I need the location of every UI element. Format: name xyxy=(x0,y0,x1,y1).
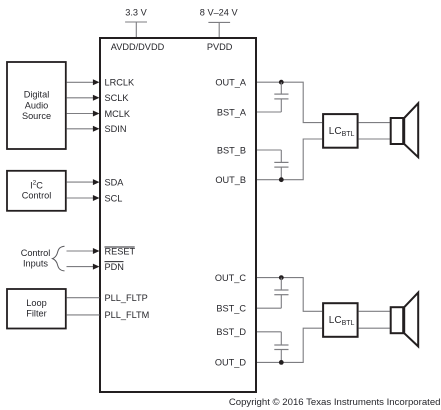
speaker SPK2 xyxy=(391,293,419,347)
wire OUT_A xyxy=(257,82,322,122)
pin label PDN (active low) xyxy=(105,262,124,272)
svg-text:OUT_C: OUT_C xyxy=(215,273,247,283)
svg-text:BST_B: BST_B xyxy=(217,145,246,155)
svg-text:OUT_B: OUT_B xyxy=(215,175,246,185)
svg-text:MCLK: MCLK xyxy=(105,109,131,119)
svg-text:3.3 V: 3.3 V xyxy=(125,8,147,18)
svg-text:SDA: SDA xyxy=(105,177,125,187)
svg-text:Inputs: Inputs xyxy=(23,259,48,269)
wire PLL_FLTP xyxy=(67,297,100,299)
svg-text:Source: Source xyxy=(22,111,51,121)
svg-text:SCLK: SCLK xyxy=(105,93,130,103)
svg-text:PLL_FLTP: PLL_FLTP xyxy=(105,293,148,303)
wire LC2 out top xyxy=(359,310,390,312)
wire OUT_D xyxy=(257,328,322,362)
Loop Filter box xyxy=(7,289,66,329)
wire LC1 out top xyxy=(359,122,390,124)
svg-text:PLL_FLTM: PLL_FLTM xyxy=(105,310,150,320)
bootstrap capacitor C_D xyxy=(274,332,288,363)
supply 3.3 V connector xyxy=(125,22,147,37)
junction dot OUT_D xyxy=(279,360,284,365)
wire LRCLK xyxy=(67,79,100,85)
wire SDIN xyxy=(67,126,100,132)
svg-text:Control: Control xyxy=(21,248,51,258)
svg-text:Loop: Loop xyxy=(26,298,46,308)
wire MCLK xyxy=(67,111,100,117)
wire LC2 out bottom xyxy=(359,327,390,329)
svg-text:SDIN: SDIN xyxy=(105,124,127,134)
LC_BTL filter box 1 xyxy=(323,114,358,148)
bootstrap capacitor C_B xyxy=(274,150,288,180)
svg-text:BST_A: BST_A xyxy=(217,107,247,117)
wire PDN xyxy=(67,264,100,270)
wire SCLK xyxy=(67,95,100,101)
svg-text:PVDD: PVDD xyxy=(207,42,233,52)
wire BST_C xyxy=(257,307,281,309)
svg-text:SCL: SCL xyxy=(105,193,123,203)
Digital Audio Source box xyxy=(7,62,66,149)
junction dot OUT_B xyxy=(279,177,284,182)
wire SDA xyxy=(67,179,100,185)
wire OUT_B xyxy=(257,139,322,180)
wire BST_A xyxy=(257,111,281,113)
supply 8V-24V connector xyxy=(208,22,230,37)
svg-text:LRCLK: LRCLK xyxy=(105,78,135,88)
svg-text:Copyright © 2016 Texas Instrum: Copyright © 2016 Texas Instruments Incor… xyxy=(229,397,441,408)
I2C Control box xyxy=(7,171,66,211)
svg-text:Digital: Digital xyxy=(24,90,50,100)
wire OUT_C xyxy=(257,278,322,312)
wire LC1 out bottom xyxy=(359,138,390,140)
LC_BTL filter box 2 xyxy=(323,303,358,337)
svg-text:Filter: Filter xyxy=(26,309,46,319)
bootstrap capacitor C_C xyxy=(274,278,288,309)
pin label RESET (active low) xyxy=(105,247,136,257)
bootstrap capacitor C_A xyxy=(274,82,288,112)
svg-text:I2C: I2C xyxy=(30,180,43,191)
wire BST_D xyxy=(257,331,281,333)
wire PLL_FLTM xyxy=(67,314,100,316)
svg-text:PDN: PDN xyxy=(105,262,124,272)
speaker SPK1 xyxy=(391,103,419,157)
wire BST_B xyxy=(257,149,281,151)
junction dot OUT_A xyxy=(279,80,284,85)
Control Inputs label xyxy=(21,248,51,269)
svg-text:BST_C: BST_C xyxy=(216,304,246,314)
junction dot OUT_C xyxy=(279,275,284,280)
svg-text:Control: Control xyxy=(22,190,52,200)
svg-text:AVDD/DVDD: AVDD/DVDD xyxy=(111,42,165,52)
svg-text:8 V–24 V: 8 V–24 V xyxy=(200,8,239,18)
svg-text:OUT_A: OUT_A xyxy=(215,78,247,88)
brace for control inputs xyxy=(53,246,65,271)
IC block U1 xyxy=(100,38,256,392)
svg-text:RESET: RESET xyxy=(105,247,136,257)
svg-text:BST_D: BST_D xyxy=(216,327,246,337)
svg-text:Audio: Audio xyxy=(25,100,49,110)
svg-text:OUT_D: OUT_D xyxy=(215,358,247,368)
wire SCL xyxy=(67,195,100,201)
wire RESET xyxy=(67,248,100,254)
